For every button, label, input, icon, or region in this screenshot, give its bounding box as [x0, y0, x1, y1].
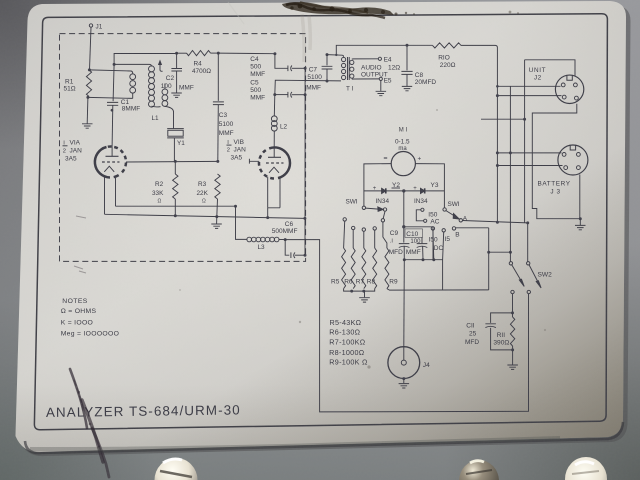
resistor R7	[362, 248, 366, 289]
wire R2 top lead	[174, 161, 176, 174]
wire Y1 to grid line	[173, 138, 175, 162]
junction J3 pin2	[496, 164, 499, 167]
junction bus C7	[326, 53, 329, 56]
faint scuffs left	[74, 216, 86, 273]
wire output routing (L3 around to SW2)	[285, 240, 528, 412]
terminal R5 jack	[343, 218, 346, 221]
wire tap row	[481, 118, 525, 120]
wire C4 left lead	[275, 54, 288, 69]
V1B plate	[268, 156, 281, 158]
junction C4 column	[304, 67, 307, 70]
switch SW2 top poles	[509, 262, 512, 265]
wire tank node to osc coil top	[114, 64, 151, 66]
junction C10 bus	[422, 258, 425, 261]
diode Y2	[382, 188, 386, 193]
junction rectifier center	[402, 189, 405, 192]
wire V1A cathode leg right	[115, 178, 117, 207]
junction B line / SW2 feed	[487, 251, 490, 254]
capacitor C6	[291, 252, 295, 258]
J2 pin B	[574, 83, 578, 87]
wire C1 to V1A grid cap	[111, 105, 114, 146]
junction 150DC bus	[432, 258, 435, 261]
wire bus1 down to L3	[236, 206, 247, 239]
junction bus C3	[217, 52, 220, 55]
wire 150AC bracket	[416, 210, 423, 221]
wire J2 pin2 row	[497, 95, 561, 97]
junction R3 ground bus	[215, 215, 218, 218]
terminal R9 jack	[381, 219, 384, 222]
wire J3 pin2 row	[497, 165, 562, 167]
wire L3 to C6 junction	[279, 239, 285, 241]
screw left	[155, 458, 198, 480]
J3 pin D	[577, 166, 581, 170]
J2 pin D	[575, 96, 579, 100]
switch SW1 right pole	[443, 208, 446, 211]
V1B filament	[269, 167, 279, 173]
SW2 left blade	[512, 265, 521, 281]
junction bus1 right end	[234, 205, 237, 208]
junction B+ line C8	[406, 44, 409, 47]
wire 15 jack down to R9 bus	[443, 232, 444, 290]
junction bus riser	[335, 54, 337, 56]
junction R7 ground bus	[362, 290, 365, 293]
junction C9 bus	[403, 258, 406, 261]
wire 150DC jack down	[432, 230, 435, 260]
wire 150AC jack to C10	[421, 238, 423, 244]
junction C5 column	[304, 93, 307, 96]
wire A line to SW2 right	[463, 221, 528, 223]
junction C5/L2 node	[273, 93, 276, 96]
wire osc winding to tickler winding	[152, 105, 161, 108]
connector J1	[89, 24, 92, 27]
resistor R9	[385, 248, 389, 289]
junction C9 top	[402, 225, 405, 228]
capacitor C7	[322, 66, 333, 69]
J3 pin A	[562, 153, 566, 157]
junction R2 filament bus	[174, 214, 177, 217]
SW1 right blade	[446, 211, 455, 217]
junction R1 top	[88, 68, 91, 71]
wire AC branch down	[432, 227, 434, 260]
junction grid/C3	[216, 160, 219, 163]
faint drip below smudge	[302, 14, 310, 62]
wire range bus	[404, 259, 442, 261]
grid winding of L1	[130, 74, 136, 80]
transformer T1 core	[348, 57, 350, 80]
junction C6 column	[304, 254, 307, 257]
junction R1 bottom	[86, 96, 89, 99]
junction C7 T1 line	[326, 80, 329, 83]
capacitor C5	[288, 92, 292, 98]
wire C10 bottom	[422, 246, 424, 259]
resistor R3	[215, 174, 220, 199]
J3 key notch	[570, 145, 575, 150]
wire J2 pin1 row	[497, 85, 560, 87]
capacitor C2 lead	[176, 53, 178, 68]
wire V1A grid row (to Y1, C3)	[126, 160, 218, 163]
plate border frame	[34, 14, 607, 430]
wire L2 to V1B plate	[273, 131, 275, 148]
wire bus2 (filament return)	[105, 214, 305, 218]
wire J4 shell to ground	[403, 379, 405, 384]
dirt smudge top center	[282, 2, 519, 18]
wire C5 node up and over to T1	[275, 80, 341, 94]
terminal 150AC top	[421, 208, 424, 211]
V1A filament	[104, 166, 114, 172]
wire R6 jack lead	[352, 230, 354, 248]
wire terminal B to right column	[456, 227, 489, 229]
wire rectifier row right	[425, 190, 445, 192]
resistor R6	[351, 248, 355, 289]
wire tickler top to C2 foot	[164, 84, 166, 90]
wire SW1 to R9 jack	[383, 211, 385, 218]
faint specks on plate	[179, 109, 546, 369]
main bus R4 segment	[177, 52, 187, 54]
terminal 150DC	[431, 227, 434, 230]
wire C6 right lead	[295, 254, 305, 256]
wire J1 to R1 top	[90, 27, 92, 70]
wire bus riser to B+ line	[336, 45, 432, 55]
wire C11 top link	[491, 313, 513, 323]
wire SW2 right feed	[527, 223, 529, 262]
wire bus to T1 primary top	[327, 55, 344, 57]
junction bus C2	[175, 52, 178, 55]
ground battery minus	[579, 219, 581, 225]
wire R5 jack lead	[344, 221, 345, 248]
connector J4	[388, 347, 420, 379]
transformer T1 secondary	[350, 60, 354, 64]
wire bus1 (V1A to L3 feed)	[116, 205, 236, 207]
terminal E4	[378, 57, 381, 60]
wire rectifier row center	[386, 190, 421, 192]
wire meter plus lead	[415, 164, 444, 208]
wire R1 top to grid coil	[89, 70, 132, 74]
junction bus2 column	[303, 217, 306, 220]
wire C11 bottom link	[491, 328, 513, 350]
wire C2 to ground	[176, 71, 178, 93]
wire rectifier bus to J4	[403, 260, 406, 347]
resistor R4	[187, 51, 211, 56]
junction V1B bus2	[266, 216, 269, 219]
wire tank node up to main bus	[114, 54, 177, 65]
SW1 left blade	[366, 208, 379, 209]
terminal R6 jack	[352, 226, 355, 229]
V1A grid (dashed)	[102, 161, 120, 163]
ground below C2	[171, 93, 182, 97]
wire coil bottom to lower grid line	[132, 94, 134, 99]
wire C6 left lead	[285, 240, 289, 256]
crystal Y1	[167, 129, 184, 138]
wire R2 bottom	[174, 199, 176, 216]
meter M1	[391, 152, 415, 176]
connector J2 shell	[555, 75, 583, 103]
junction grid/Y1/R2	[174, 160, 177, 163]
ground below E5	[376, 91, 387, 95]
terminal E5	[379, 77, 382, 80]
unit box J2	[525, 60, 575, 77]
wire J3 pin1 row	[497, 152, 561, 154]
wire C5 left lead	[275, 94, 288, 96]
inductor L2	[271, 116, 277, 122]
wire tickler bottom to crystal Y1	[165, 106, 174, 128]
junction A line R10 drop	[496, 221, 499, 224]
junction J3 row crossing	[509, 151, 512, 154]
wire C9 bottom	[403, 246, 405, 259]
wire R10 to right column	[461, 45, 497, 222]
wire C3 to grid line	[217, 105, 220, 162]
J3 pin B	[577, 153, 581, 157]
tuning arrow on L1	[160, 64, 163, 72]
tickler winding of L1	[162, 89, 168, 95]
wire V1B filament to bus2	[267, 208, 269, 218]
oscillator dashed enclosure box	[60, 34, 306, 262]
junction pin2	[496, 94, 499, 97]
capacitor C11	[485, 324, 496, 328]
wire R11 to ground	[512, 350, 514, 365]
terminal 150AC bottom	[424, 219, 427, 222]
diode Y3	[421, 188, 425, 193]
osc winding of L1 (tuned)	[149, 66, 155, 72]
wire J2 pin D routing	[532, 104, 580, 219]
wire bus R4 to C3	[211, 52, 219, 54]
wire C9/C10 link	[404, 226, 433, 228]
wire rectifier row left	[364, 190, 382, 192]
wire R7 jack lead	[363, 231, 365, 248]
wire bus C3 to C4 junction	[218, 52, 275, 55]
wire C5 right lead	[292, 94, 305, 96]
junction on grid lead	[111, 109, 114, 112]
wire C7 top lead	[326, 55, 328, 66]
ground below C8	[402, 86, 412, 90]
capacitor C2	[171, 69, 182, 72]
J2 key notch	[567, 76, 572, 81]
ground below R1	[82, 124, 93, 128]
resistor R10	[433, 43, 462, 48]
V1B grid (dashed)	[266, 162, 284, 164]
wire R5-R8 ground bus	[344, 289, 375, 292]
terminal 15	[442, 229, 445, 232]
junction J3 pin1	[496, 151, 499, 154]
SW2 right blade	[529, 265, 538, 282]
wire SW2 left feed	[489, 251, 511, 253]
wire C8 top lead	[406, 45, 408, 70]
ground R bank	[364, 291, 366, 297]
wire J2 box left edge down	[524, 60, 526, 223]
ground below R11	[507, 365, 518, 369]
screw middle	[459, 460, 499, 480]
wire R1 bottom grid line	[88, 97, 133, 98]
resistor R1	[86, 70, 91, 97]
junction battery minus	[579, 217, 582, 220]
wire V1A cathode leg left	[104, 177, 106, 214]
wire J3 pin to minus node	[579, 175, 581, 219]
wire E5 to ground	[380, 81, 382, 91]
pencil scratch bottom left	[70, 369, 109, 477]
label C10 100 MMF	[405, 229, 423, 237]
capacitor C3	[213, 102, 224, 105]
tube V1B envelope	[259, 147, 290, 178]
wire C4 right lead	[292, 67, 305, 69]
meter polarity marks	[384, 157, 387, 159]
switch SW1 left pole	[362, 206, 365, 209]
plate bottom edge shadow	[25, 422, 623, 453]
wire meter minus lead	[364, 164, 391, 207]
capacitor C10	[417, 244, 428, 248]
junction R6 ground bus	[350, 290, 353, 293]
switch SW2 bottom contacts	[511, 290, 514, 293]
tube V1A envelope	[95, 146, 126, 177]
junction SW2 left feed	[509, 251, 512, 254]
capacitor C1	[107, 102, 118, 105]
resistor R2	[173, 174, 178, 199]
wire ground stem bus2	[216, 217, 218, 224]
ground below J4	[399, 384, 410, 388]
wire rectifier node down through C9	[403, 191, 405, 243]
terminal R7 jack	[362, 228, 365, 231]
wire R1 to ground	[86, 97, 89, 123]
wire J2 feed down to SW2 left	[509, 86, 511, 261]
junction A line SW2	[526, 221, 529, 224]
inductor L3	[247, 237, 252, 242]
wire SW2 left contact down	[512, 294, 514, 313]
wire L2 top to C5 node	[273, 95, 276, 117]
V1A plate	[106, 155, 119, 157]
resistor R8	[373, 248, 377, 289]
junction J4 shell	[402, 377, 405, 380]
J3 pin C	[564, 166, 568, 170]
wire C8 to ground	[406, 74, 408, 86]
wire R9 output bus	[387, 289, 489, 291]
capacitor C4	[288, 66, 292, 72]
J2 pin C	[562, 95, 566, 99]
wire T1 secondary to E5	[352, 78, 379, 80]
terminal B	[452, 227, 455, 230]
wire V1B grid stub	[249, 159, 259, 164]
ground filament bus	[211, 224, 222, 228]
capacitor C9	[399, 244, 410, 248]
wire V1B filament legs	[268, 177, 280, 208]
junction bus C4	[273, 52, 276, 55]
wire output column (C4/C5 to C6)	[304, 68, 306, 255]
terminal A	[459, 219, 462, 222]
J2 pin A	[561, 83, 565, 87]
resistor R11	[512, 313, 514, 317]
wire R3 bottom	[216, 199, 219, 217]
wire R9 jack lead	[383, 222, 387, 248]
screw right	[565, 457, 607, 480]
connector J3 shell	[558, 145, 588, 175]
transformer T1 primary	[342, 57, 346, 61]
capacitor C3 lead	[217, 53, 219, 101]
junction C11/R11 top	[511, 311, 514, 314]
junction tap	[523, 118, 526, 121]
capacitor C8	[401, 71, 412, 74]
terminal R8 jack	[373, 227, 376, 230]
node: tank top junction	[113, 63, 116, 66]
V1A top lead stub	[111, 147, 113, 157]
junction R11 bottom	[511, 348, 514, 351]
wire T1 secondary to E4	[352, 58, 378, 60]
wire B line down	[488, 228, 490, 290]
wire R8 jack lead	[374, 230, 376, 248]
junction L3/C6	[284, 238, 287, 241]
wire C7 bottom lead	[326, 69, 328, 81]
resistor R5	[342, 248, 346, 289]
V1B top lead stub	[273, 148, 275, 158]
capacitor C1 lead from tank node	[113, 64, 114, 101]
